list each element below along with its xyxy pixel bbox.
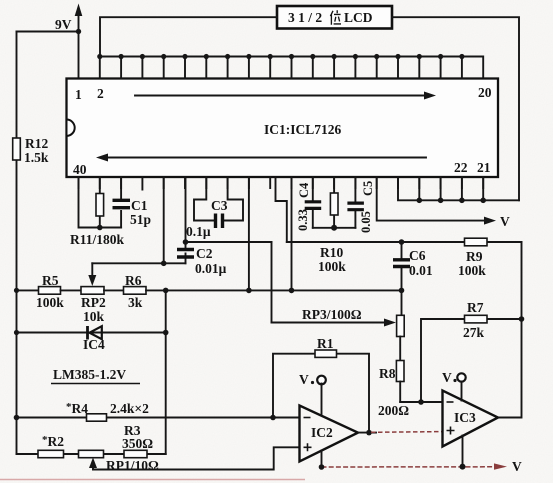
svg-text:IC2: IC2 [311,425,333,440]
RP1 wiper arrow up [89,458,97,470]
resistor R11 vertical [96,177,104,228]
svg-text:22: 22 [454,160,468,175]
resistor R10 vertical [330,177,338,228]
wire: mid rail R5 to RP2 [61,289,82,291]
svg-text:RP1/10Ω: RP1/10Ω [106,458,159,473]
diode IC4 LM385 [88,326,102,340]
node IC2 inverting junction [270,415,276,421]
label C4 0.33 vertical [296,182,311,231]
op-amp IC3 triangle [443,391,499,447]
wire: RP3 to R8 [399,337,401,361]
label C2 0.01u [195,246,227,276]
resistor R2 [38,450,64,457]
node R7 right column junction [519,316,525,322]
svg-text:R6: R6 [125,273,142,288]
svg-text:9V: 9V [55,17,72,32]
arrow pin flow bottom (left) [96,154,426,162]
svg-text:C4: C4 [297,182,311,198]
resistor R3 [124,450,147,457]
svg-text:R8: R8 [379,366,396,381]
potentiometer RP2 [81,287,104,295]
wire: LCD left lead down to segment bus [100,17,277,56]
svg-text:R10: R10 [320,245,343,260]
resistor R9 in reference line [465,238,488,246]
node mid rail left junction [14,288,19,293]
wire: LCD right lead down right side to pin rail [392,17,519,200]
IC3 V+ terminal [442,370,466,401]
svg-text:RP3/100Ω: RP3/100Ω [302,307,362,322]
svg-text:3k: 3k [128,295,143,310]
wire: display pin rail to right riser [419,199,519,201]
wire: bottom divider line [17,453,166,455]
wire: R7 feedback loop [421,319,522,402]
wire: middle column from mid rail down [165,290,167,454]
wire: pin 40 lead down and right [79,177,122,228]
wire: IC2 output to IC3 input (red pencil) [371,431,443,434]
resistor R5 [39,287,61,295]
svg-text:IC3: IC3 [454,410,476,425]
wire: pin leads 21-24 down to rail [419,177,483,200]
svg-text:1: 1 [75,87,82,102]
node R7 tap junction [418,399,424,405]
wire: RP3 wiper line with arrow [272,319,397,327]
svg-text:IC1:ICL7126: IC1:ICL7126 [264,122,342,137]
svg-text:2.4k×2: 2.4k×2 [110,401,149,416]
LCD display box 3 1/2 wei LCD [277,6,392,29]
svg-text:R11/180k: R11/180k [70,232,125,247]
svg-text:V: V [512,459,522,474]
svg-text:R7: R7 [467,300,484,315]
label R12 1.5k [24,136,49,165]
svg-text:200Ω: 200Ω [378,403,409,418]
capacitor C3 loop [194,177,243,228]
wire: pin lead to RP2 wiper junction [163,177,165,263]
svg-text:20: 20 [478,85,492,100]
capacitor C5 [347,177,364,228]
resistor R6 [124,287,147,295]
wire: pin lead to V arrow [377,177,496,225]
IC2 V+ terminal [299,372,326,416]
svg-text:IC4: IC4 [83,337,105,352]
node C6 top junction [399,239,405,245]
wire: C4 C5 common connector [313,227,356,229]
label LM385-1.2V underlined [51,367,140,384]
wire: RP1 wiper line to IC2 non-inverting input [93,447,300,469]
node left column R4 junction [14,415,20,421]
label C5 0.05 vertical [359,181,375,233]
svg-text:C3: C3 [211,198,228,213]
svg-text:10k: 10k [83,309,105,324]
resistor R4 [87,414,107,421]
capacitor C4 [305,177,322,228]
wire: 9V horizontal to left column [17,31,79,33]
svg-text:3 1 / 2: 3 1 / 2 [288,10,322,25]
RP2 wiper arrow from C2 line [88,263,96,286]
svg-text:27k: 27k [463,325,485,340]
svg-text:C6: C6 [409,248,426,263]
wire: mid rail RP2 to R6 [104,289,124,291]
svg-text:LCD: LCD [344,10,373,25]
svg-text:100k: 100k [36,295,64,310]
svg-text:V: V [442,370,452,385]
svg-text:R9: R9 [466,249,483,264]
label R9 100k [458,249,486,278]
capacitor C6 [393,242,410,290]
wire: faint red pencil line bottom left [0,479,305,481]
wire: mid rail R6 to C6 bottom [146,289,402,291]
wire: RP2 wiper horizontal line to C2 bottom [92,262,185,264]
wire: R8 bottom to IC3 inverting input [400,401,442,403]
node pin rail junction dots [417,198,487,204]
svg-text:350Ω: 350Ω [122,436,153,451]
wire: left column vertical [16,32,18,455]
label C6 0.01 [409,248,433,278]
node mid rail junction dots [163,288,404,294]
potentiometer RP1 [79,450,104,457]
wire: IC2 negative supply lead [321,451,323,467]
resistor R12 vertical [13,138,21,160]
IC1 top pin ticks 2-19 to bus with junction dots [97,54,464,79]
label R7 27k [463,300,485,340]
svg-text:C1: C1 [131,198,148,213]
svg-text:R5: R5 [42,273,59,288]
resistor R7 [465,315,488,323]
potentiometer RP3 vertical [397,290,405,337]
label R5 100k [36,273,64,310]
svg-text:100k: 100k [318,259,346,274]
node R10 bottom junction [331,225,337,231]
wire: stepped pin lead to reference line [276,177,287,242]
label R6 3k [125,273,143,310]
wire: 9V supply riser with up arrow (pin 1) [75,4,83,79]
node IC4 line junctions [14,330,169,336]
wire: negative rail (red pencil) with arrow to V [322,463,508,469]
svg-text:0.01μ: 0.01μ [195,261,227,276]
svg-text:0.33: 0.33 [296,209,310,231]
svg-text:V: V [500,214,510,229]
svg-text:C2: C2 [196,246,213,261]
capacitor C1 [113,177,131,228]
svg-text:0.1μ: 0.1μ [186,224,211,239]
resistor R1 feedback with loop wires [273,350,369,433]
wire: mid rail left part [17,289,39,291]
wire: segment bus over IC with corner to pin 20 [100,57,483,79]
capacitor C2 with pin lead [177,177,194,263]
node negative rail junction dots [319,464,466,470]
node C2 top junction on reference line [183,239,189,245]
svg-text:RP2: RP2 [81,295,106,310]
label C1 51p [130,198,151,227]
svg-text:V: V [299,372,309,387]
svg-text:1.5k: 1.5k [24,150,49,165]
svg-text:2: 2 [97,86,104,101]
wire: R4 line from left column to IC2 inverting node [17,417,300,419]
op-amp/IC U1: IC1 ICL7126 body with notch [67,79,499,178]
svg-text:40: 40 [73,162,87,177]
wire: IC2 output segment [358,432,376,434]
wire: RP3 riser from reference line [271,242,273,323]
svg-text:51p: 51p [130,212,151,227]
svg-text:R1: R1 [317,336,334,351]
svg-text:0.01: 0.01 [409,263,433,278]
svg-text:LM385-1.2V: LM385-1.2V [53,367,126,382]
wire: pin lead crossing to mid rail [291,177,293,290]
svg-text:C5: C5 [361,181,375,196]
svg-text:R12: R12 [25,136,48,151]
wire: pin lead bending into display pin rail [398,177,419,200]
svg-text:21: 21 [477,160,491,175]
wire: IC4 reference diode line [17,332,166,334]
node R1 output junction [366,430,372,436]
op-amp IC2 triangle [300,406,359,462]
wire: reference line C2 top to right column [186,241,272,243]
label R10 100k [318,245,346,274]
wire: pin lead down to mid rail [248,177,250,290]
node 9V junction dot [76,29,81,34]
label R3 350ohm [122,423,153,451]
arrow pin flow top (right) [135,92,436,100]
wire: right column down to IC3 output corner [498,242,522,418]
IC1 bottom pin stub ticks [79,177,484,190]
pin number labels 1 2 20 40 22 21 [73,85,492,177]
resistor R8 vertical [396,361,404,403]
wire: IC3 negative supply lead [462,436,464,467]
label RP2 10k [81,295,106,324]
node wiper line junction [161,261,167,267]
label C3 0.1u [186,198,228,239]
svg-text:100k: 100k [458,263,486,278]
node R11 bottom junction [97,225,103,231]
svg-text:0.05: 0.05 [359,211,373,233]
